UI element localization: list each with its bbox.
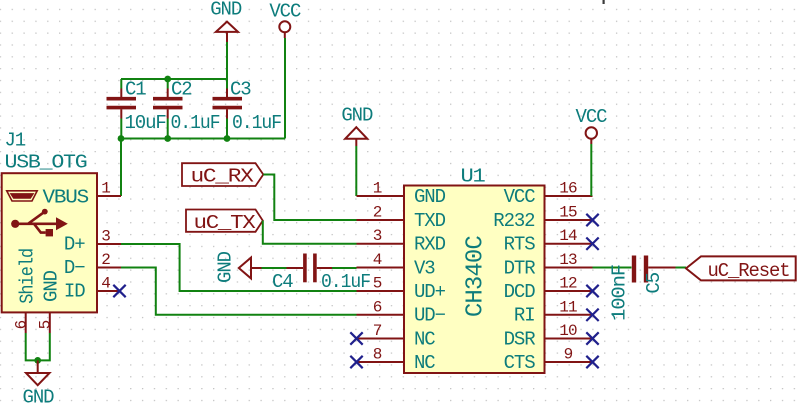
svg-text:USB_OTG: USB_OTG (5, 151, 88, 173)
svg-text:VCC: VCC (504, 186, 536, 208)
svg-text:2: 2 (101, 251, 110, 269)
wire J1 pin6 to junction (26, 333, 38, 360)
svg-text:NC: NC (414, 328, 435, 350)
wire D- J1.2 to U1.6 (121, 268, 357, 315)
hierarchical label uC_TX (186, 210, 263, 234)
svg-text:C3: C3 (230, 79, 251, 101)
svg-text:RXD: RXD (414, 234, 446, 256)
wire uC_TX to U1 RXD (263, 221, 357, 244)
pin 2 TXD (357, 219, 405, 221)
no-connect X on U1 pin 8 (350, 356, 362, 368)
pin 7 NC (357, 338, 405, 340)
pin 6 UD- (357, 314, 405, 316)
svg-text:GND: GND (41, 270, 63, 302)
wire D+ J1.3 to U1.5 (121, 244, 357, 291)
pin 11 RI (545, 314, 593, 316)
svg-text:8: 8 (373, 346, 382, 364)
svg-text:1: 1 (101, 180, 110, 198)
wire bottom bus (121, 138, 285, 140)
svg-text:5: 5 (36, 320, 54, 329)
svg-text:J1: J1 (5, 130, 26, 152)
svg-text:16: 16 (559, 180, 577, 198)
svg-text:C2: C2 (171, 79, 192, 101)
svg-text:11: 11 (559, 298, 577, 316)
pin 1 VBUS (97, 195, 121, 197)
svg-text:UD+: UD+ (414, 281, 446, 303)
no-connect X on U1 pin 15 (586, 214, 598, 226)
svg-text:CH340C: CH340C (463, 236, 490, 318)
pin 4 ID (97, 290, 121, 292)
svg-text:5: 5 (373, 275, 382, 293)
pin 1 GND (357, 195, 405, 197)
svg-text:14: 14 (559, 227, 577, 245)
junction bottom bus at C2 (164, 135, 171, 142)
svg-text:NC: NC (414, 352, 435, 374)
svg-text:DCD: DCD (504, 281, 536, 303)
no-connect X on J1 pin 4 (113, 285, 125, 297)
svg-text:RI: RI (514, 305, 535, 327)
svg-text:GND: GND (210, 0, 242, 21)
svg-text:UD−: UD− (414, 305, 446, 327)
svg-text:DTR: DTR (504, 257, 536, 279)
svg-text:7: 7 (373, 322, 382, 340)
svg-text:CTS: CTS (504, 352, 536, 374)
svg-text:D−: D− (64, 257, 85, 279)
wire GND to top bus and C3 top (226, 42, 228, 89)
svg-text:0.1uF: 0.1uF (232, 112, 282, 134)
svg-text:TXD: TXD (414, 210, 446, 232)
pin 14 RTS (545, 243, 593, 245)
pin 4 V3 (357, 267, 405, 269)
pin 10 DSR (545, 338, 593, 340)
no-connect X on U1 pin 7 (350, 332, 362, 344)
pin 3 D+ (97, 243, 121, 245)
power symbol GND above U1 pin1 (341, 105, 373, 147)
svg-text:uC_RX: uC_RX (191, 166, 255, 188)
pin 2 D- (97, 267, 121, 269)
power symbol GND top-left (210, 0, 242, 42)
pin 5 UD+ (357, 290, 405, 292)
wire J1 pin5 to junction (38, 333, 50, 360)
pin 5 GND bottom (49, 312, 51, 333)
svg-text:C1: C1 (125, 79, 146, 101)
hierarchical label uC_Reset (686, 256, 796, 281)
svg-text:D+: D+ (64, 233, 85, 255)
power symbol VCC top-left (269, 0, 301, 38)
junction J1 ground (34, 357, 41, 364)
pin 16 VCC (545, 195, 593, 197)
svg-text:15: 15 (559, 204, 577, 222)
svg-text:DSR: DSR (504, 328, 536, 350)
junction top bus at C2 (164, 76, 171, 83)
USB receptacle icon (7, 191, 38, 201)
capacitor C3 0.1uF (213, 79, 282, 139)
wire C4 to U1 V3 (332, 267, 357, 269)
no-connect X on U1 pin 10 (586, 332, 598, 344)
svg-text:9: 9 (564, 346, 573, 364)
pin 8 NC (357, 361, 405, 363)
no-connect X on U1 pin 11 (586, 309, 598, 321)
svg-text:uC_Reset: uC_Reset (708, 260, 790, 282)
svg-text:4: 4 (373, 251, 382, 269)
pin 13 DTR (545, 267, 593, 269)
svg-text:4: 4 (101, 275, 110, 293)
svg-text:V3: V3 (414, 257, 435, 279)
svg-text:GND: GND (341, 105, 373, 127)
wire bus down to J1 pin1 (120, 139, 122, 197)
pin 6 Shield bottom (25, 312, 27, 333)
svg-text:Shield: Shield (17, 249, 39, 304)
capacitor C4 0.1uF (272, 254, 371, 294)
wire top bus (121, 78, 227, 80)
capacitor C5 100nF (609, 256, 676, 322)
power symbol VCC right (576, 106, 608, 144)
wire uC_RX to U1 TXD (263, 175, 356, 221)
svg-text:3: 3 (101, 228, 110, 246)
pin 3 RXD (357, 243, 405, 245)
capacitor C1 10uF (107, 79, 167, 139)
junction bottom bus at C1 (118, 135, 125, 142)
junction bottom bus at C3 (224, 135, 231, 142)
wire VCC down to bottom bus (284, 38, 286, 139)
svg-text:GND: GND (23, 386, 55, 408)
svg-text:ID: ID (64, 281, 85, 303)
power symbol GND at C4 (215, 251, 262, 283)
svg-text:VCC: VCC (576, 106, 608, 128)
svg-text:GND: GND (215, 251, 237, 283)
svg-text:0.1uF: 0.1uF (321, 271, 371, 293)
pin 15 R232 (545, 219, 593, 221)
svg-text:U1: U1 (461, 166, 486, 188)
no-connect X on U1 pin 14 (586, 238, 598, 250)
power symbol GND below J1 (23, 360, 55, 408)
wire GND to U1 pin1 (355, 146, 357, 196)
pin 12 DCD (545, 290, 593, 292)
svg-text:10uF: 10uF (125, 112, 167, 134)
USB trident icon (11, 220, 19, 228)
svg-text:1: 1 (373, 180, 382, 198)
svg-text:GND: GND (414, 186, 446, 208)
svg-text:R232: R232 (493, 210, 535, 232)
svg-text:VBUS: VBUS (43, 186, 89, 208)
svg-text:6: 6 (373, 298, 382, 316)
wire GND to C4 (262, 267, 287, 269)
svg-text:10: 10 (559, 322, 577, 340)
no-connect X on U1 pin 12 (586, 285, 598, 297)
svg-text:0.1uF: 0.1uF (171, 112, 221, 134)
svg-text:12: 12 (559, 275, 577, 293)
cursor tick (603, 0, 605, 4)
capacitor C2 0.1uF (153, 79, 220, 139)
no-connect X on U1 pin 9 (586, 356, 598, 368)
wire C5 to uC_Reset (676, 267, 687, 269)
wire U1 DTR to C5 (593, 267, 632, 269)
svg-text:2: 2 (373, 204, 382, 222)
svg-text:C4: C4 (272, 271, 293, 293)
hierarchical label uC_RX (182, 163, 263, 187)
svg-text:C5: C5 (643, 272, 665, 293)
svg-text:uC_TX: uC_TX (194, 212, 257, 234)
svg-text:100nF: 100nF (609, 264, 631, 321)
svg-text:VCC: VCC (269, 0, 301, 22)
svg-text:6: 6 (12, 320, 30, 329)
connector J1 USB_OTG (2, 130, 121, 334)
pin 9 CTS (545, 361, 593, 363)
IC U1 CH340C (357, 166, 593, 374)
svg-text:3: 3 (373, 227, 382, 245)
svg-text:RTS: RTS (504, 234, 536, 256)
svg-text:13: 13 (559, 251, 577, 269)
wire VCC to U1 pin16 (590, 144, 592, 196)
